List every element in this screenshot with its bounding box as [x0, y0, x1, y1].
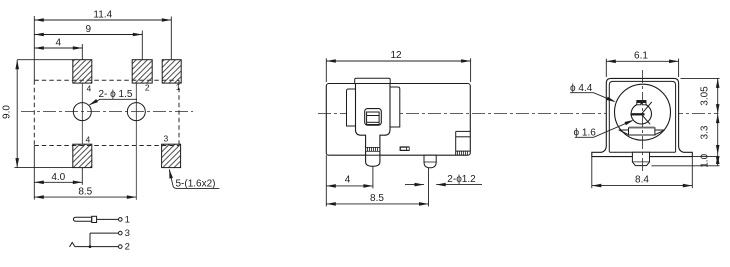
svg-text:8.5: 8.5 [370, 193, 384, 204]
pad number labels [86, 82, 181, 145]
body outline [326, 84, 470, 156]
svg-text:3.05: 3.05 [700, 86, 711, 106]
pin hole small circle [631, 104, 651, 124]
svg-text:3: 3 [125, 228, 130, 239]
svg-text:2: 2 [125, 242, 130, 253]
pad 4 top [73, 60, 181, 168]
centerline [318, 113, 719, 115]
svg-text:6.1: 6.1 [634, 51, 648, 62]
dim arrows top [34, 18, 171, 50]
svg-text:2- ϕ 1.5: 2- ϕ 1.5 [99, 89, 133, 100]
body outline dashed [34, 80, 179, 145]
vertical centerline [641, 70, 643, 172]
bottom block in bushing [619, 128, 665, 135]
dim 4.0 bottom [34, 146, 136, 200]
pin bottom ext [652, 165, 720, 167]
svg-text:8.4: 8.4 [635, 175, 649, 186]
pin 2 wire with switch contact [70, 242, 119, 247]
svg-text:1.0: 1.0 [700, 153, 711, 167]
centerline horizontal [21, 111, 193, 113]
front face bottom edge [609, 151, 675, 153]
svg-text:4: 4 [87, 84, 92, 94]
svg-text:8.5: 8.5 [78, 187, 92, 198]
pin split diagonals [641, 102, 652, 114]
pin knurl band [366, 147, 380, 151]
pad 1 top [162, 60, 181, 83]
shell outer silhouette [592, 78, 693, 156]
plug window [365, 109, 382, 126]
dim 11.4 line [34, 16, 171, 80]
right stacked dims [717, 78, 719, 165]
pin 1 terminal [119, 218, 123, 222]
dim 8.4 [592, 157, 693, 189]
svg-text:9.0: 9.0 [2, 105, 13, 119]
junction wire [89, 233, 91, 247]
clip side plate right [390, 87, 400, 127]
terminal block right [456, 131, 471, 155]
knurl band above key block [629, 127, 654, 129]
barrel plug symbol [70, 216, 123, 248]
svg-text:4.0: 4.0 [51, 172, 65, 183]
shell inner wall lines [609, 81, 675, 152]
svg-text:9: 9 [86, 24, 92, 35]
top tab on pin hole [637, 101, 646, 105]
svg-text:1: 1 [125, 214, 130, 225]
dims bottom middle [326, 155, 482, 206]
svg-text:2-ϕ1.2: 2-ϕ1.2 [447, 174, 476, 185]
svg-text:ϕ 1.6: ϕ 1.6 [574, 127, 597, 138]
svg-text:4: 4 [345, 175, 351, 186]
dim texts top [2, 10, 113, 119]
clip top tab [355, 78, 391, 83]
vent hole [400, 146, 410, 151]
svg-text:1: 1 [176, 82, 181, 92]
svg-text:3: 3 [164, 134, 169, 144]
svg-text:3.3: 3.3 [700, 125, 711, 139]
bushing big circle [615, 84, 671, 140]
svg-text:4: 4 [86, 135, 91, 145]
hole 1 [73, 103, 91, 121]
pin 3 wire [90, 232, 118, 234]
body bottom edge over pin [366, 154, 380, 156]
dim 12 [326, 58, 470, 82]
svg-text:12: 12 [390, 50, 402, 61]
housing with front pin [356, 84, 391, 167]
pad 3 bottom [162, 144, 181, 167]
svg-text:11.4: 11.4 [93, 10, 112, 21]
svg-text:5-(1.6x2): 5-(1.6x2) [176, 179, 216, 190]
hole center verticals [82, 83, 136, 200]
center pin below [632, 152, 649, 165]
bottom pin phi1.2 [424, 155, 436, 168]
label 5-(1.6x2) [169, 169, 219, 188]
svg-text:2: 2 [145, 83, 150, 93]
svg-text:4: 4 [56, 37, 62, 48]
dim 6.1 [606, 59, 678, 77]
shell top ext to right dim [681, 77, 720, 79]
dim 9.0 vertical left [15, 60, 73, 168]
clip side plate left [347, 89, 356, 126]
flange bottom ext [692, 156, 719, 158]
hole 2 [127, 103, 145, 121]
pad 4 bottom [73, 144, 92, 167]
pin slot bar [631, 113, 645, 115]
pad 2 top [132, 60, 152, 83]
